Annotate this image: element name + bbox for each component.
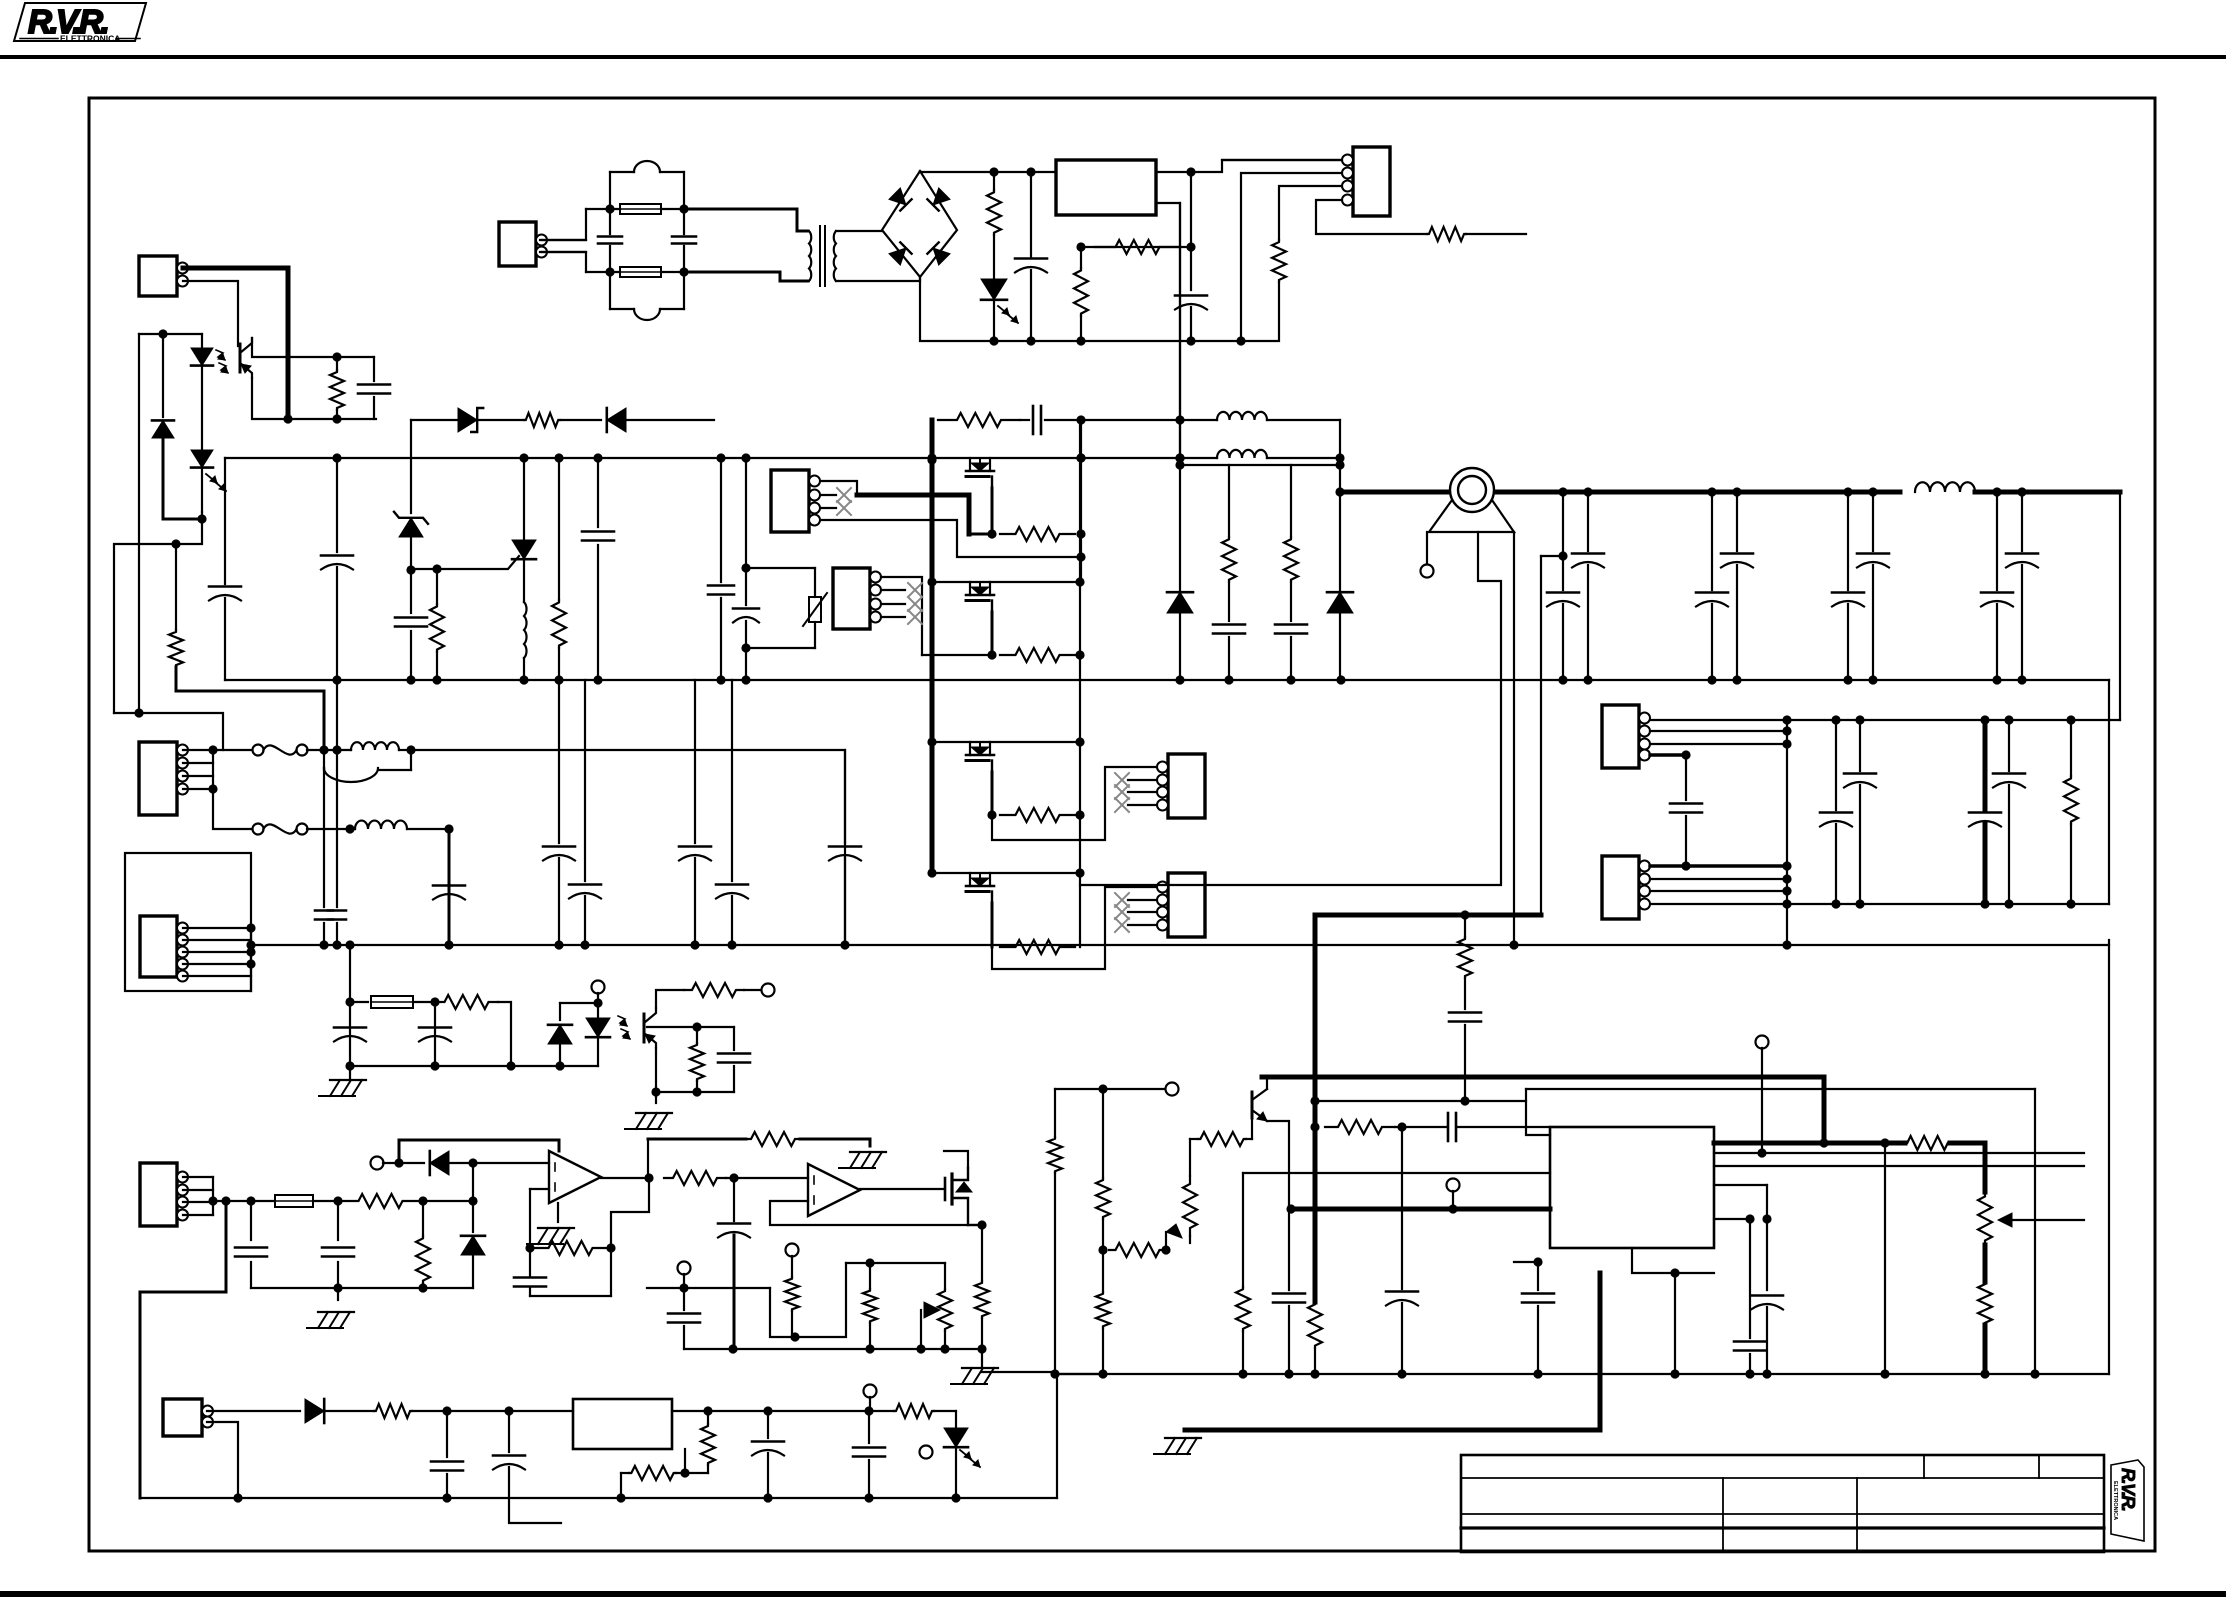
svg-text:R.V.R.: R.V.R. — [2118, 1468, 2138, 1511]
svg-text:ELETTRONICA: ELETTRONICA — [2112, 1481, 2118, 1520]
svg-text:ELETTRONICA: ELETTRONICA — [60, 34, 120, 44]
